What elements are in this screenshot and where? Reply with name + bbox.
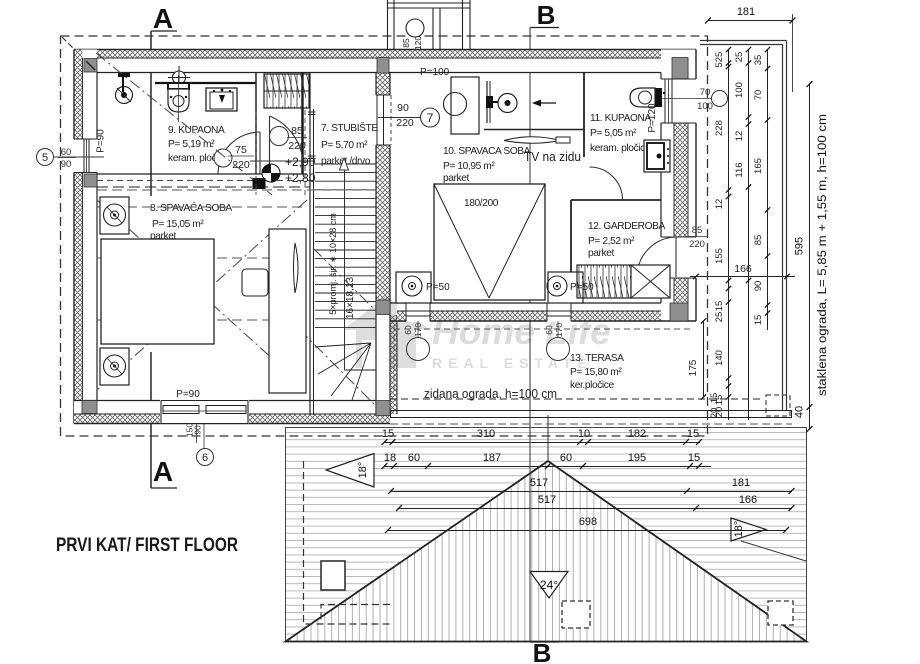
svg-text:P=100: P=100 bbox=[420, 67, 450, 78]
exterior wall: right bbox=[661, 50, 696, 322]
dim chain 2 (x748.5) bbox=[746, 47, 751, 420]
exterior wall: left bbox=[74, 50, 97, 424]
svg-text:181: 181 bbox=[732, 477, 750, 489]
svg-text:parket: parket bbox=[588, 248, 614, 259]
closet with hangers bbox=[264, 74, 309, 108]
svg-text:B: B bbox=[537, 0, 556, 30]
svg-text:10: 10 bbox=[578, 428, 590, 440]
wardrobe/desk east wall bedroom8 bbox=[269, 229, 306, 393]
svg-text:166: 166 bbox=[739, 494, 757, 506]
stair winders bbox=[315, 343, 376, 400]
pier top at chimney (x377-388) bbox=[377, 58, 389, 74]
svg-text:85: 85 bbox=[291, 125, 303, 137]
svg-text:175: 175 bbox=[688, 359, 699, 376]
svg-text:ker.pločice: ker.pločice bbox=[570, 380, 614, 391]
partition room10/garderoba (x571) bbox=[570, 200, 572, 303]
pier terrace wall left end bbox=[376, 300, 390, 315]
partition stair west (x310/313.5) bbox=[308, 73, 316, 416]
svg-text:90: 90 bbox=[397, 102, 409, 114]
svg-text:9. KUPAONA: 9. KUPAONA bbox=[168, 125, 225, 136]
svg-text:100: 100 bbox=[697, 101, 713, 112]
svg-text:181: 181 bbox=[737, 6, 755, 18]
svg-text:P=90: P=90 bbox=[96, 129, 107, 153]
svg-text:12: 12 bbox=[734, 131, 745, 142]
ceiling lamp room10 bbox=[444, 93, 467, 116]
sink kupaona11 bbox=[644, 140, 670, 172]
window right wall 70/100 bbox=[660, 79, 697, 123]
svg-text:120: 120 bbox=[413, 36, 423, 50]
svg-text:7. STUBIŠTE: 7. STUBIŠTE bbox=[321, 121, 378, 134]
svg-text:310: 310 bbox=[477, 428, 495, 440]
svg-text:698: 698 bbox=[579, 516, 597, 528]
svg-text:60: 60 bbox=[560, 452, 572, 464]
svg-text:5: 5 bbox=[714, 62, 725, 67]
secondary dashed line above parapet bbox=[390, 423, 792, 425]
pier top-right corner bbox=[672, 58, 688, 80]
bed room10 (180/200) bbox=[434, 184, 545, 300]
position marker circle 6 bbox=[197, 449, 214, 466]
terrace window 2 (60/170) bbox=[547, 302, 571, 322]
roof plan outline bbox=[286, 428, 807, 642]
leader line 18deg right bbox=[741, 541, 806, 561]
nightstand room10 left bbox=[396, 272, 431, 303]
sink bathroom 9 bbox=[206, 88, 237, 111]
svg-text:18°: 18° bbox=[357, 462, 369, 479]
black column marker bbox=[253, 178, 266, 189]
svg-text:90: 90 bbox=[61, 159, 72, 170]
svg-text:+2,80: +2,80 bbox=[285, 171, 316, 185]
pier left wall below window bbox=[84, 174, 97, 187]
stair walk line with arrow bbox=[340, 158, 349, 370]
svg-text:187: 187 bbox=[483, 452, 501, 464]
svg-text:REAL ESTATE: REAL ESTATE bbox=[432, 355, 593, 371]
svg-text:15: 15 bbox=[753, 315, 764, 326]
svg-text:60: 60 bbox=[61, 147, 72, 158]
top dim 181 bbox=[705, 18, 795, 24]
svg-text:517: 517 bbox=[538, 494, 556, 506]
TV wall (y129.5) bbox=[484, 129, 584, 131]
roof dimension row 5: 698 bbox=[388, 530, 786, 532]
glass fence vertical right bbox=[783, 41, 787, 411]
svg-text:70: 70 bbox=[700, 87, 711, 98]
TV on wall (lens) bbox=[504, 137, 570, 144]
roof dashed box center bbox=[562, 601, 590, 628]
roof dimension row 4: 517 166 bbox=[399, 508, 792, 510]
pier stair wall bottom bbox=[376, 401, 390, 416]
svg-text:90: 90 bbox=[193, 425, 203, 435]
svg-text:220: 220 bbox=[396, 117, 414, 129]
svg-text:P= 15,80 m²: P= 15,80 m² bbox=[570, 367, 622, 378]
svg-text:+2,90: +2,90 bbox=[285, 155, 316, 169]
roof slope marker 24deg center bbox=[530, 572, 568, 599]
roof slope marker 18deg right bbox=[731, 518, 766, 541]
svg-text:TV na zidu: TV na zidu bbox=[524, 149, 581, 164]
dim label 60/90 at window bbox=[58, 157, 76, 159]
label 85/220 door bbox=[287, 137, 307, 139]
svg-text:70: 70 bbox=[753, 90, 764, 101]
label 70/100 + marker circle right wall bbox=[660, 91, 728, 107]
terrace window 2 circle bbox=[547, 338, 570, 361]
roof gable triangle bbox=[286, 461, 807, 642]
roof slope marker 18deg left bbox=[326, 454, 374, 488]
partition room10/kupaona11 (x584) bbox=[583, 73, 585, 158]
exterior wall: top bbox=[74, 50, 696, 73]
roof overhang dashed outline bbox=[61, 36, 708, 436]
bathroom9 vanity line (y83) bbox=[155, 82, 256, 84]
roof dimension row 2: 18 60 187 60 195 15 bbox=[384, 466, 711, 468]
bedroom8 dashed ceiling lines bbox=[97, 190, 376, 320]
svg-text:75: 75 bbox=[235, 144, 247, 156]
nightstand room10 right bbox=[547, 272, 583, 303]
stair treads bbox=[315, 164, 376, 327]
svg-text:P= 5,05 m²: P= 5,05 m² bbox=[590, 128, 637, 139]
chair bedroom8 bbox=[242, 269, 268, 296]
roof ridge stub at apex bbox=[547, 415, 549, 461]
dim 166 horizontal bbox=[690, 274, 795, 279]
svg-text:60: 60 bbox=[403, 325, 413, 335]
svg-text:15: 15 bbox=[382, 428, 394, 440]
svg-text:155: 155 bbox=[714, 248, 725, 264]
svg-text:P= 10,95 m²: P= 10,95 m² bbox=[443, 161, 495, 172]
corner pier top-left bbox=[84, 59, 97, 73]
window left wall 60/90 bbox=[72, 139, 98, 173]
svg-text:25: 25 bbox=[714, 52, 725, 63]
svg-text:P=90: P=90 bbox=[176, 389, 200, 400]
nightstand upper with lamp bbox=[100, 197, 129, 234]
svg-text:P= 2,52 m²: P= 2,52 m² bbox=[588, 236, 635, 247]
svg-text:40: 40 bbox=[794, 406, 806, 418]
arrow pointing left bbox=[532, 100, 556, 107]
svg-text:35: 35 bbox=[753, 55, 764, 66]
bathroom9 door 75/220 in south wall bbox=[214, 132, 260, 174]
dim 595 (x809) bbox=[807, 81, 813, 410]
svg-text:24°: 24° bbox=[540, 578, 558, 592]
partition bathroom9 east (x303) bbox=[301, 73, 303, 175]
svg-text:P= 5,70 m²: P= 5,70 m² bbox=[321, 140, 368, 151]
svg-text:595: 595 bbox=[794, 237, 806, 255]
svg-text:P= 15,05 m²: P= 15,05 m² bbox=[152, 219, 204, 230]
watermark house icon bbox=[343, 296, 430, 368]
svg-text:182: 182 bbox=[628, 428, 646, 440]
svg-text:517: 517 bbox=[530, 477, 548, 489]
TV bracket and fitting bbox=[486, 81, 517, 123]
svg-text:116: 116 bbox=[734, 162, 745, 177]
nightstand lower with lamp bbox=[100, 348, 129, 385]
svg-text:staklena ograda, L= 5,85 m + 1: staklena ograda, L= 5,85 m + 1,55 m, h=1… bbox=[817, 114, 829, 396]
svg-text:140: 140 bbox=[714, 350, 725, 366]
dim chain 1 (x728) bbox=[726, 47, 731, 420]
svg-text:25: 25 bbox=[734, 52, 745, 63]
exterior wall: bottom (bedroom 8) bbox=[74, 401, 390, 424]
ceiling light symbol top wall bbox=[168, 66, 190, 89]
roof dashed dormer outline left bbox=[304, 461, 391, 624]
label 85/220 right wall bbox=[686, 236, 708, 238]
svg-text:220: 220 bbox=[689, 239, 705, 250]
svg-text:P= 5,19 m²: P= 5,19 m² bbox=[168, 139, 215, 150]
rooflight white rect left bbox=[321, 561, 345, 590]
diagonal slope line bathroom9 (dash-dot) bbox=[96, 53, 272, 195]
bathroom9 door arc 85/220 bbox=[270, 116, 304, 170]
svg-text:15: 15 bbox=[688, 452, 700, 464]
terrace north wall (y303-321) bbox=[390, 303, 696, 321]
bed bedroom8 bbox=[101, 239, 214, 344]
toilet bathroom 9 bbox=[168, 75, 189, 122]
svg-text:85: 85 bbox=[401, 38, 411, 48]
svg-text:PRVI KAT/ FIRST FLOOR: PRVI KAT/ FIRST FLOOR bbox=[56, 535, 238, 556]
dashed door jambs bbox=[255, 112, 257, 195]
svg-text:7: 7 bbox=[427, 111, 434, 125]
shower fitting left strip bbox=[116, 73, 133, 104]
svg-text:A: A bbox=[153, 3, 173, 34]
level line under +2,90 bbox=[250, 160, 313, 162]
svg-text:6: 6 bbox=[202, 452, 208, 464]
svg-text:11. KUPAONA: 11. KUPAONA bbox=[590, 113, 652, 124]
svg-text:parket: parket bbox=[443, 173, 469, 184]
position marker circle 5 with leader bbox=[37, 149, 105, 166]
svg-text:15: 15 bbox=[687, 428, 699, 440]
svg-text:180/200: 180/200 bbox=[464, 198, 499, 209]
roof dashed box right bbox=[768, 601, 793, 625]
svg-text:228: 228 bbox=[714, 120, 725, 136]
door bottom wall P=90 (bedroom 8) bbox=[160, 400, 249, 424]
door right wall 85/220 (garderoba) bbox=[660, 237, 697, 278]
roof dimension row 1: 15 310 10 182 15 bbox=[384, 442, 700, 444]
svg-text:16×18,13: 16×18,13 bbox=[345, 277, 356, 319]
svg-text:165: 165 bbox=[753, 158, 764, 174]
kupaona11 door arc bbox=[590, 167, 623, 200]
bathroom9 east wall (x256) bbox=[255, 73, 257, 175]
svg-text:166: 166 bbox=[734, 263, 752, 275]
section line A vertical (lower) bbox=[150, 352, 152, 488]
svg-text:18: 18 bbox=[384, 452, 396, 464]
section line B vertical bbox=[529, 28, 531, 643]
closet room10 bbox=[451, 77, 479, 134]
level symbol (quadrant circle) bbox=[262, 164, 280, 182]
garderoba closet with hangers bbox=[577, 265, 631, 298]
svg-text:170: 170 bbox=[554, 323, 564, 337]
svg-text:12: 12 bbox=[714, 199, 725, 210]
svg-text:195: 195 bbox=[628, 452, 646, 464]
section line A vertical (upper) bbox=[150, 31, 152, 196]
partition kupaona11/garderoba (y200) bbox=[571, 199, 661, 201]
svg-text:13. TERASA: 13. TERASA bbox=[570, 353, 624, 364]
pier terrace wall right end bbox=[670, 303, 688, 321]
svg-text:85: 85 bbox=[753, 235, 764, 246]
svg-text:15: 15 bbox=[714, 301, 725, 312]
svg-text:60: 60 bbox=[544, 325, 554, 335]
terrace dashed inner outline bbox=[394, 325, 690, 393]
dim 150/90 below door bbox=[197, 424, 205, 449]
svg-text:100: 100 bbox=[734, 82, 745, 98]
terrace window 1 (60/170) bbox=[406, 302, 430, 322]
svg-text:20: 20 bbox=[709, 408, 720, 419]
roof dimension row 3: 517 181 bbox=[391, 491, 792, 493]
svg-text:85: 85 bbox=[692, 225, 703, 236]
chimney flue circle bbox=[406, 19, 424, 37]
svg-text:60: 60 bbox=[408, 452, 420, 464]
door label 90/220 with marker 7 bbox=[378, 108, 440, 127]
door opening in stair east wall (90/220) bbox=[375, 95, 391, 145]
overhang corner miter mark bbox=[62, 37, 76, 51]
svg-text:15: 15 bbox=[709, 393, 720, 404]
glass fence horizontal top bbox=[700, 41, 787, 45]
partition bathroom9 south (y174/187) bbox=[97, 174, 314, 187]
svg-text:220: 220 bbox=[288, 140, 306, 152]
svg-text:A: A bbox=[153, 456, 173, 487]
svg-text:90: 90 bbox=[753, 281, 764, 292]
svg-text:8. SPAVAĆA SOBA: 8. SPAVAĆA SOBA bbox=[150, 201, 232, 214]
label 75/220 bbox=[228, 155, 254, 157]
svg-text:10. SPAVACA SOBA: 10. SPAVACA SOBA bbox=[443, 146, 531, 157]
terrace window 1 circle bbox=[407, 338, 430, 361]
garderoba X-box bbox=[631, 265, 670, 298]
garderoba door arc bbox=[637, 237, 676, 276]
stair slope diagonals (dash-dot) bbox=[299, 248, 376, 406]
bedroom8 slope diagonals (dash-dot) bbox=[97, 200, 307, 390]
interior bearing wall: stair east (x376-390) bbox=[376, 73, 397, 416]
toilet kupaona11 bbox=[630, 88, 665, 107]
chimney block bbox=[388, 0, 471, 50]
terrace parapet (bottom) bbox=[390, 395, 792, 418]
pier bottom-left corner bbox=[82, 401, 97, 414]
dim chain 3 (x767.5) bbox=[765, 47, 770, 330]
extension line x792 bbox=[792, 14, 794, 92]
svg-text:keram. pločice: keram. pločice bbox=[590, 143, 651, 154]
svg-text:5: 5 bbox=[42, 152, 48, 164]
svg-text:12. GARDEROBA: 12. GARDEROBA bbox=[588, 221, 665, 232]
svg-text:P=50: P=50 bbox=[426, 282, 450, 293]
dim 175 (x703) bbox=[701, 318, 706, 399]
dim 40 bbox=[807, 407, 813, 432]
svg-text:25: 25 bbox=[714, 312, 725, 323]
svg-text:18°: 18° bbox=[733, 521, 745, 538]
